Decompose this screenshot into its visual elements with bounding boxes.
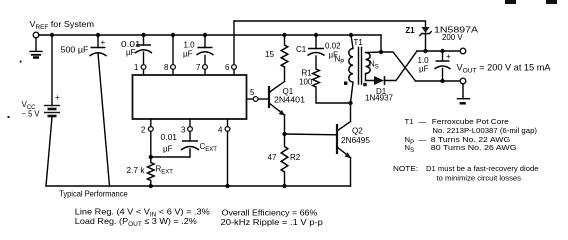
capacitor 1.0uF output	[440, 49, 444, 53]
svg-text:5: 5	[250, 88, 255, 97]
transistor Q1 2N4401	[268, 86, 270, 108]
svg-text:20-kHz Ripple = .1 V p-p: 20-kHz Ripple = .1 V p-p	[221, 217, 324, 227]
wire bottom rail	[46, 185, 351, 187]
stray scan mark top right 2	[546, 0, 557, 4]
pin 4	[227, 119, 229, 127]
svg-text:80 Turns No. 26 AWG: 80 Turns No. 26 AWG	[431, 143, 517, 152]
svg-text:R1: R1	[302, 69, 313, 78]
ground (output)	[458, 84, 470, 104]
zener Z1 1N5897A	[422, 27, 430, 33]
capacitor 0.01uF (pin 1)	[141, 33, 145, 37]
svg-text:200 V: 200 V	[442, 33, 463, 42]
pin 2	[150, 119, 152, 127]
node output - terminal	[460, 78, 466, 84]
IC U1 box	[133, 75, 247, 119]
stray scan dot mid-left	[20, 61, 22, 63]
node output + terminal	[460, 48, 466, 54]
resistor R1 100	[313, 69, 320, 87]
svg-text:15: 15	[265, 50, 274, 59]
svg-text:µF: µF	[183, 50, 193, 59]
svg-text:4: 4	[218, 126, 223, 135]
wire upper output line	[417, 50, 460, 52]
svg-text:No. 2213P-L00387 (6-mil gap): No. 2213P-L00387 (6-mil gap)	[432, 126, 537, 135]
wire Ns-top cross to lower output	[381, 52, 416, 81]
svg-text:+: +	[101, 38, 106, 47]
svg-text:47: 47	[268, 153, 277, 162]
resistor REXT 2.7k	[150, 157, 152, 163]
svg-text:2N4401: 2N4401	[274, 96, 306, 105]
capacitor C1 0.02uF	[314, 33, 318, 37]
diode D1 1N4937	[374, 76, 384, 85]
svg-text:+: +	[446, 52, 451, 61]
svg-text:NOTE:: NOTE:	[393, 164, 418, 173]
secondary Ns winding	[366, 51, 382, 54]
svg-text:Typical Performance: Typical Performance	[59, 190, 128, 199]
svg-text:3: 3	[181, 126, 186, 135]
capacitor 1.0uF (pin 7)	[203, 33, 207, 37]
svg-text:0.02: 0.02	[325, 42, 341, 51]
svg-text:—: —	[419, 117, 427, 126]
core	[359, 48, 362, 85]
svg-text:6: 6	[225, 63, 230, 72]
svg-text:2.7 k: 2.7 k	[127, 166, 146, 175]
ground (below VREF terminal)	[30, 38, 42, 58]
svg-text:500 µF: 500 µF	[61, 46, 89, 55]
Ns phasing dot	[363, 83, 366, 86]
svg-text:0.01: 0.01	[161, 133, 178, 142]
stray scan mark top right 1	[505, 0, 516, 4]
svg-text:− 5 V: − 5 V	[22, 110, 41, 119]
Np phasing dot	[344, 82, 347, 85]
stray scan dot left	[8, 116, 10, 118]
svg-text:Overall Efficiency = 66%: Overall Efficiency = 66%	[222, 208, 318, 218]
pin 7	[203, 65, 208, 70]
svg-text:Ferroxcube Pot Core: Ferroxcube Pot Core	[432, 117, 509, 126]
wire Q1 emitter to Q2 base	[285, 133, 338, 136]
capacitor 500uF	[96, 33, 100, 37]
svg-text:7: 7	[196, 63, 201, 72]
svg-text:µF: µF	[419, 65, 429, 74]
svg-text:1.0: 1.0	[184, 41, 196, 50]
svg-text:µF: µF	[126, 48, 136, 57]
pin 6 (connects up through rail to upper wire)	[233, 21, 235, 65]
wire rail drop to Ns top	[380, 35, 382, 52]
svg-text:Q2: Q2	[352, 127, 363, 136]
svg-text:C1: C1	[296, 45, 307, 54]
pin 8	[171, 33, 175, 37]
svg-text:2: 2	[141, 126, 146, 135]
svg-text:to minimize circuit losses: to minimize circuit losses	[437, 174, 522, 183]
svg-text:1N4937: 1N4937	[365, 94, 394, 103]
pin 3	[189, 119, 191, 127]
svg-text:1: 1	[134, 63, 139, 72]
svg-text:µF: µF	[163, 145, 173, 154]
svg-text:8: 8	[164, 63, 169, 72]
resistor 15 ohm	[282, 33, 286, 37]
svg-text:R2: R2	[290, 153, 301, 162]
svg-text:Z1: Z1	[406, 26, 416, 35]
pin 5	[247, 98, 254, 100]
svg-text:T1: T1	[354, 38, 364, 47]
svg-text:—: —	[419, 135, 427, 144]
wire upper rail (pin6 to Z1)	[234, 21, 426, 27]
capacitor CEXT 0.01uF	[181, 141, 199, 150]
node VREF terminal	[33, 32, 39, 38]
svg-text:T1: T1	[405, 117, 414, 126]
transistor Q2 2N6495	[336, 124, 338, 154]
svg-text:100: 100	[299, 78, 313, 87]
primary Np winding	[349, 33, 353, 37]
svg-text:+: +	[55, 93, 60, 102]
pin 1	[141, 65, 146, 70]
resistor R2 47 ohm	[284, 134, 286, 147]
wire lower output line	[416, 80, 461, 82]
wire main VREF rail	[39, 34, 381, 36]
battery VCC -5V	[51, 35, 53, 106]
svg-text:D1 must be a fast-recovery dio: D1 must be a fast-recovery diode	[426, 164, 539, 173]
svg-text:2N6495: 2N6495	[341, 136, 371, 145]
